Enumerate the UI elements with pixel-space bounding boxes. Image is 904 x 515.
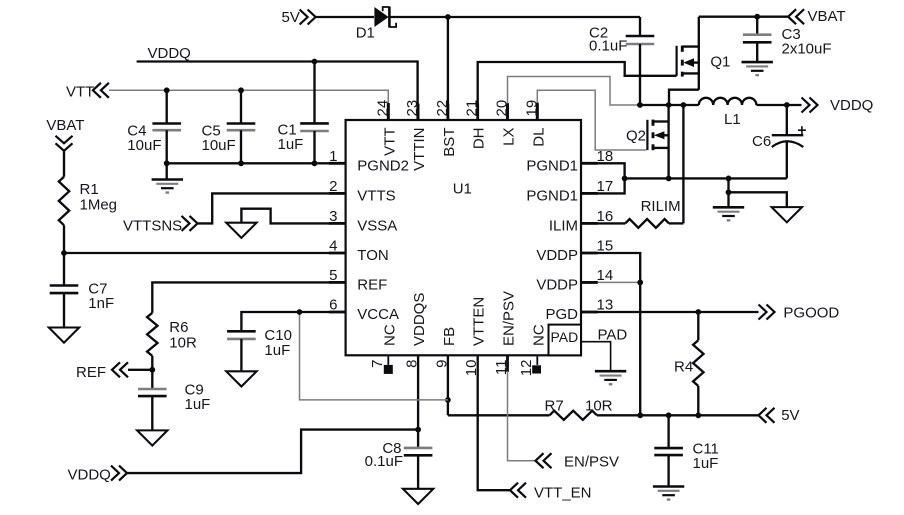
capacitor C9 1uF <box>138 389 167 430</box>
svg-text:18: 18 <box>597 148 614 165</box>
node Q2-source-PGND junction <box>666 176 672 182</box>
svg-text:ILIM: ILIM <box>549 218 578 235</box>
wire LX rail <box>637 104 699 106</box>
wire VBAT to R1 <box>63 151 65 177</box>
svg-text:PGND2: PGND2 <box>357 158 409 175</box>
wire VSSA net (pin3) <box>241 209 345 224</box>
node C5 bottom junction <box>238 160 244 166</box>
svg-text:PGOOD: PGOOD <box>783 305 839 322</box>
inductor L1 <box>699 98 757 105</box>
node PGND-branch junction <box>726 189 732 195</box>
svg-text:U1: U1 <box>453 181 472 198</box>
svg-text:1nF: 1nF <box>88 295 114 312</box>
node PGND junction pins17-18 <box>622 176 628 182</box>
svg-text:PAD: PAD <box>551 329 579 345</box>
port 5V (top left) <box>300 10 374 25</box>
port VTT (left) <box>66 83 109 101</box>
svg-text:24: 24 <box>374 100 391 117</box>
svg-text:EN/PSV: EN/PSV <box>564 454 619 471</box>
svg-text:L1: L1 <box>724 111 741 128</box>
wire R1 to C7 <box>63 225 65 285</box>
pin 3 VSSA <box>329 208 397 235</box>
node RILIM-rail junction <box>681 102 687 108</box>
pin 19 DL <box>523 100 547 147</box>
svg-text:1uF: 1uF <box>185 396 211 413</box>
node VDDP junction <box>637 280 643 286</box>
svg-text:16: 16 <box>597 208 614 225</box>
port VDDQ (bottom left) <box>68 466 128 484</box>
node PGD-R4 junction <box>695 309 701 315</box>
svg-text:RILIM: RILIM <box>641 198 681 215</box>
svg-text:PAD: PAD <box>598 327 628 344</box>
svg-text:VDDP: VDDP <box>536 247 578 264</box>
wire VCCA net / C10 top <box>241 312 345 331</box>
wire D1-to-C2 / BST node <box>389 17 640 120</box>
ground (C11) <box>653 487 684 500</box>
svg-text:VTT: VTT <box>381 128 398 156</box>
pin 18 PGND1 <box>526 148 613 175</box>
pin 22 BST <box>434 100 458 157</box>
node FB-VCCA junction <box>445 397 451 403</box>
svg-text:1Meg: 1Meg <box>80 197 118 214</box>
wire L1-to-VDDQ port <box>756 104 801 106</box>
wire 5V net (bottom right) <box>448 414 758 416</box>
NC square pin12 <box>532 365 541 373</box>
port REF (left) <box>76 362 152 381</box>
svg-text:C6: C6 <box>752 133 771 150</box>
svg-text:23: 23 <box>404 100 421 117</box>
label C9 <box>185 382 211 414</box>
wire PGND2 ground stem <box>166 163 168 179</box>
pin 13 PGD <box>545 297 613 324</box>
svg-text:8: 8 <box>404 360 421 368</box>
resistor RILIM <box>581 219 683 228</box>
pin 7 NC <box>369 324 399 368</box>
pin 6 VCCA <box>329 297 399 324</box>
svg-text:10uF: 10uF <box>127 137 161 154</box>
capacitor C2 0.1uF <box>626 17 655 105</box>
wire VTT_EN net (pin10) <box>478 355 510 490</box>
node C1 bottom junction <box>312 160 318 166</box>
wire DL net (pin19 to Q2 gate, gray) <box>537 90 646 150</box>
label RILIM <box>641 198 681 215</box>
port VTT_EN <box>510 483 592 502</box>
transistor Q2 (low-side NMOS) <box>647 105 668 178</box>
ground (signal, bars) <box>713 207 744 220</box>
wire VDDQ net (bottom left) <box>127 430 418 474</box>
node C4 bottom junction <box>164 160 170 166</box>
svg-text:1: 1 <box>329 148 337 165</box>
node TON-R1 junction <box>61 250 67 256</box>
node REF-C9 junction <box>149 367 155 373</box>
svg-text:D1: D1 <box>356 25 375 42</box>
capacitor C1 1uF <box>300 62 329 164</box>
pin 14 VDDP <box>536 267 613 294</box>
svg-text:R6: R6 <box>169 319 188 336</box>
port PGOOD <box>759 305 840 322</box>
svg-text:VBAT: VBAT <box>808 8 846 25</box>
label R7 10R <box>545 398 613 415</box>
label Q2 <box>626 128 646 145</box>
svg-text:R1: R1 <box>80 181 99 198</box>
svg-text:VTTIN: VTTIN <box>411 128 428 171</box>
node 5V-VDDP junction <box>637 412 643 418</box>
pin 17 PGND1 <box>526 178 613 205</box>
capacitor C11 1uF <box>654 415 683 486</box>
svg-text:Q2: Q2 <box>626 128 646 145</box>
svg-text:3: 3 <box>329 208 337 225</box>
port VBAT (left) <box>46 117 84 151</box>
svg-text:5V: 5V <box>282 9 300 26</box>
wire VBAT rail (top right) <box>699 16 788 18</box>
label C8 <box>365 440 403 470</box>
node 5V-C11 junction <box>666 412 672 418</box>
svg-text:15: 15 <box>597 238 614 255</box>
pin 9 FB <box>433 327 458 368</box>
svg-text:VDDQ: VDDQ <box>148 45 191 62</box>
svg-text:VDDP: VDDP <box>536 277 578 294</box>
label R6 10R <box>169 319 197 352</box>
svg-text:0.1uF: 0.1uF <box>365 453 403 470</box>
label PAD (external) <box>598 327 628 344</box>
svg-text:VTT_EN: VTT_EN <box>534 485 592 502</box>
node VCCA-C10 junction <box>297 309 303 315</box>
wire REF net (pin5 to R6) <box>152 282 345 312</box>
ground (PGND2, bars) <box>152 180 183 193</box>
svg-text:VTTEN: VTTEN <box>471 297 488 346</box>
svg-text:TON: TON <box>357 247 388 264</box>
node 5V-R4 junction <box>695 412 701 418</box>
NC square pin7 <box>384 365 393 374</box>
svg-text:R4: R4 <box>674 359 693 376</box>
svg-text:VTTS: VTTS <box>357 188 395 205</box>
svg-text:Q1: Q1 <box>710 54 730 71</box>
ground (power, triangle) <box>772 207 802 222</box>
wire Q1 source to LX rail <box>669 90 699 105</box>
svg-text:VSSA: VSSA <box>357 218 397 235</box>
svg-text:10uF: 10uF <box>202 137 236 154</box>
svg-text:2x10uF: 2x10uF <box>782 41 832 58</box>
pin 24 VTT <box>374 100 398 156</box>
svg-text:10R: 10R <box>585 398 613 415</box>
wire VTT net (gray) <box>109 90 388 120</box>
pin 4 TON <box>329 238 389 265</box>
svg-text:22: 22 <box>434 100 451 117</box>
pin 16 ILIM <box>549 208 613 235</box>
ground (C9) <box>137 430 167 445</box>
svg-text:0.1uF: 0.1uF <box>589 38 627 55</box>
diode D1 (Schottky) <box>374 7 396 28</box>
wire DH net (pin21 to Q1 gate) <box>478 62 677 120</box>
wire PGND1 net (pins 18,17) <box>581 163 625 193</box>
node VDDQ-C6 junction <box>784 102 790 108</box>
svg-text:VDDQS: VDDQS <box>411 293 428 346</box>
wire VDDP pin14 (gray) <box>581 281 640 284</box>
port 5V (right) <box>759 407 800 424</box>
label 5V (top-left port) <box>282 9 300 26</box>
node Q1-source junction <box>666 102 672 108</box>
resistor R1 1Meg <box>59 177 69 226</box>
pin 21 DH <box>464 100 488 149</box>
ground (C3) <box>742 62 773 75</box>
wire VDDQ net (top, to pin23) <box>137 62 418 121</box>
svg-text:17: 17 <box>597 178 614 195</box>
transistor Q1 (high-side NMOS) <box>677 17 699 90</box>
svg-text:5: 5 <box>329 267 337 284</box>
svg-text:11: 11 <box>493 360 510 376</box>
label R1 1Meg <box>80 181 118 214</box>
svg-text:DL: DL <box>530 128 547 147</box>
wire TON net (pin4) <box>64 252 346 254</box>
wire VDDP net (pin15) <box>581 253 640 415</box>
svg-text:VBAT: VBAT <box>46 117 84 134</box>
label C3 <box>782 26 832 58</box>
svg-text:7: 7 <box>369 360 386 368</box>
port EN/PSV <box>536 453 620 470</box>
wire PGND rail (y=178) <box>625 177 787 179</box>
node VBAT-C3 junction <box>754 14 760 20</box>
node BST junction <box>445 14 451 20</box>
svg-text:1uF: 1uF <box>278 136 304 153</box>
resistor R7 <box>550 411 598 420</box>
pin 1 PGND2 <box>329 148 409 175</box>
node C2-rail junction <box>637 102 643 108</box>
svg-text:EN/PSV: EN/PSV <box>501 291 518 346</box>
svg-text:13: 13 <box>597 297 614 314</box>
svg-text:R7: R7 <box>545 398 564 415</box>
wire VTTSNS to pin2 <box>198 193 346 223</box>
capacitor C6 (polarized) <box>772 105 806 178</box>
capacitor C7 1nF <box>50 286 79 328</box>
svg-text:14: 14 <box>597 267 614 284</box>
svg-text:NC: NC <box>381 324 398 346</box>
wire PGD net (pin13 to PGOOD) <box>581 311 759 313</box>
pin 15 VDDP <box>536 238 613 265</box>
svg-text:VTTSNS: VTTSNS <box>123 218 182 235</box>
svg-text:NC: NC <box>530 324 547 346</box>
label C6 <box>752 133 771 150</box>
svg-text:LX: LX <box>501 128 518 146</box>
pin 20 LX <box>494 100 518 146</box>
node VDDQS-C8 junction <box>415 427 421 433</box>
label C7 1nF <box>88 281 114 313</box>
label C10 <box>264 327 292 359</box>
wire EN/PSV net (pin11, gray) <box>508 355 536 460</box>
pin 10 VTTEN <box>463 297 488 376</box>
svg-text:4: 4 <box>329 238 337 255</box>
pin 8 VDDQS <box>404 293 429 368</box>
label R4 <box>674 359 693 376</box>
wire LX net (pin20, gray) <box>508 77 639 121</box>
wire VDDQS net (pin8 to C8) <box>417 355 419 448</box>
svg-text:2: 2 <box>329 178 337 195</box>
node VTT-C4 junction <box>164 87 170 93</box>
label C5 10uF <box>202 123 236 155</box>
wire VCCA-to-FB (gray) <box>300 312 448 400</box>
pin 2 VTTS <box>329 178 396 205</box>
ground (C8) <box>403 489 433 504</box>
svg-text:VCCA: VCCA <box>357 306 399 323</box>
svg-text:10: 10 <box>463 360 480 377</box>
capacitor C3 2x10uF <box>743 17 772 62</box>
svg-text:VDDQ: VDDQ <box>830 97 873 114</box>
svg-text:REF: REF <box>76 364 106 381</box>
wire FB net (pin9) <box>447 355 449 415</box>
svg-text:PGD: PGD <box>545 306 578 323</box>
resistor R4 <box>693 312 703 415</box>
label C4 10uF <box>127 123 161 155</box>
label C2 <box>589 25 627 55</box>
pin 11 EN/PSV <box>493 291 518 375</box>
wire PGND ground stem <box>727 178 729 207</box>
svg-text:VDDQ: VDDQ <box>68 467 111 484</box>
wire PGND2 net (pin1) <box>167 162 346 164</box>
label C11 <box>693 441 719 473</box>
svg-text:6: 6 <box>329 297 337 314</box>
pin 23 VTTIN <box>404 100 428 171</box>
label C1 1uF <box>278 122 304 154</box>
ground (C7) <box>49 328 79 343</box>
svg-text:VTT: VTT <box>66 84 94 101</box>
wire PAD to ground <box>581 342 611 372</box>
port VBAT (top right) <box>788 8 845 25</box>
svg-text:REF: REF <box>357 277 387 294</box>
resistor R6 <box>147 313 157 389</box>
svg-text:10R: 10R <box>169 335 197 352</box>
IC U1 body <box>346 120 581 355</box>
svg-text:21: 21 <box>464 100 481 117</box>
svg-text:9: 9 <box>433 360 450 368</box>
label Q1 <box>710 54 730 71</box>
svg-text:FB: FB <box>441 327 458 346</box>
svg-text:DH: DH <box>471 128 488 150</box>
node VDDQ-C1 junction <box>312 59 318 65</box>
ground (C10) <box>226 371 256 386</box>
node VTT-C5 junction <box>238 87 244 93</box>
svg-text:20: 20 <box>494 100 511 117</box>
wire RILIM riser <box>682 105 684 223</box>
svg-text:1uF: 1uF <box>264 342 290 359</box>
wire PGND to power-ground branch <box>729 192 787 207</box>
label U1 <box>453 181 472 198</box>
svg-text:BST: BST <box>441 128 458 157</box>
svg-text:5V: 5V <box>781 407 799 424</box>
capacitor C8 0.1uF <box>404 448 433 489</box>
label VDDQ (top left) <box>148 45 191 62</box>
pin 12 NC <box>518 324 548 376</box>
ground (PAD, bars) <box>595 371 626 384</box>
svg-text:1uF: 1uF <box>693 455 719 472</box>
node PGND-ground junction <box>726 176 732 182</box>
pad box PAD <box>549 325 582 356</box>
capacitor C5 10uF <box>227 90 256 163</box>
pin 5 REF <box>329 267 387 294</box>
svg-text:PGND1: PGND1 <box>526 158 578 175</box>
label L1 <box>724 111 741 128</box>
label D1 <box>356 25 375 42</box>
capacitor C10 1uF <box>227 331 256 371</box>
port VDDQ (right) <box>802 97 874 114</box>
capacitor C4 10uF <box>152 90 181 163</box>
ground (VSSA, triangle) <box>226 223 256 238</box>
port VTTSNS <box>123 216 198 235</box>
svg-text:19: 19 <box>523 100 540 117</box>
svg-text:PGND1: PGND1 <box>526 188 578 205</box>
